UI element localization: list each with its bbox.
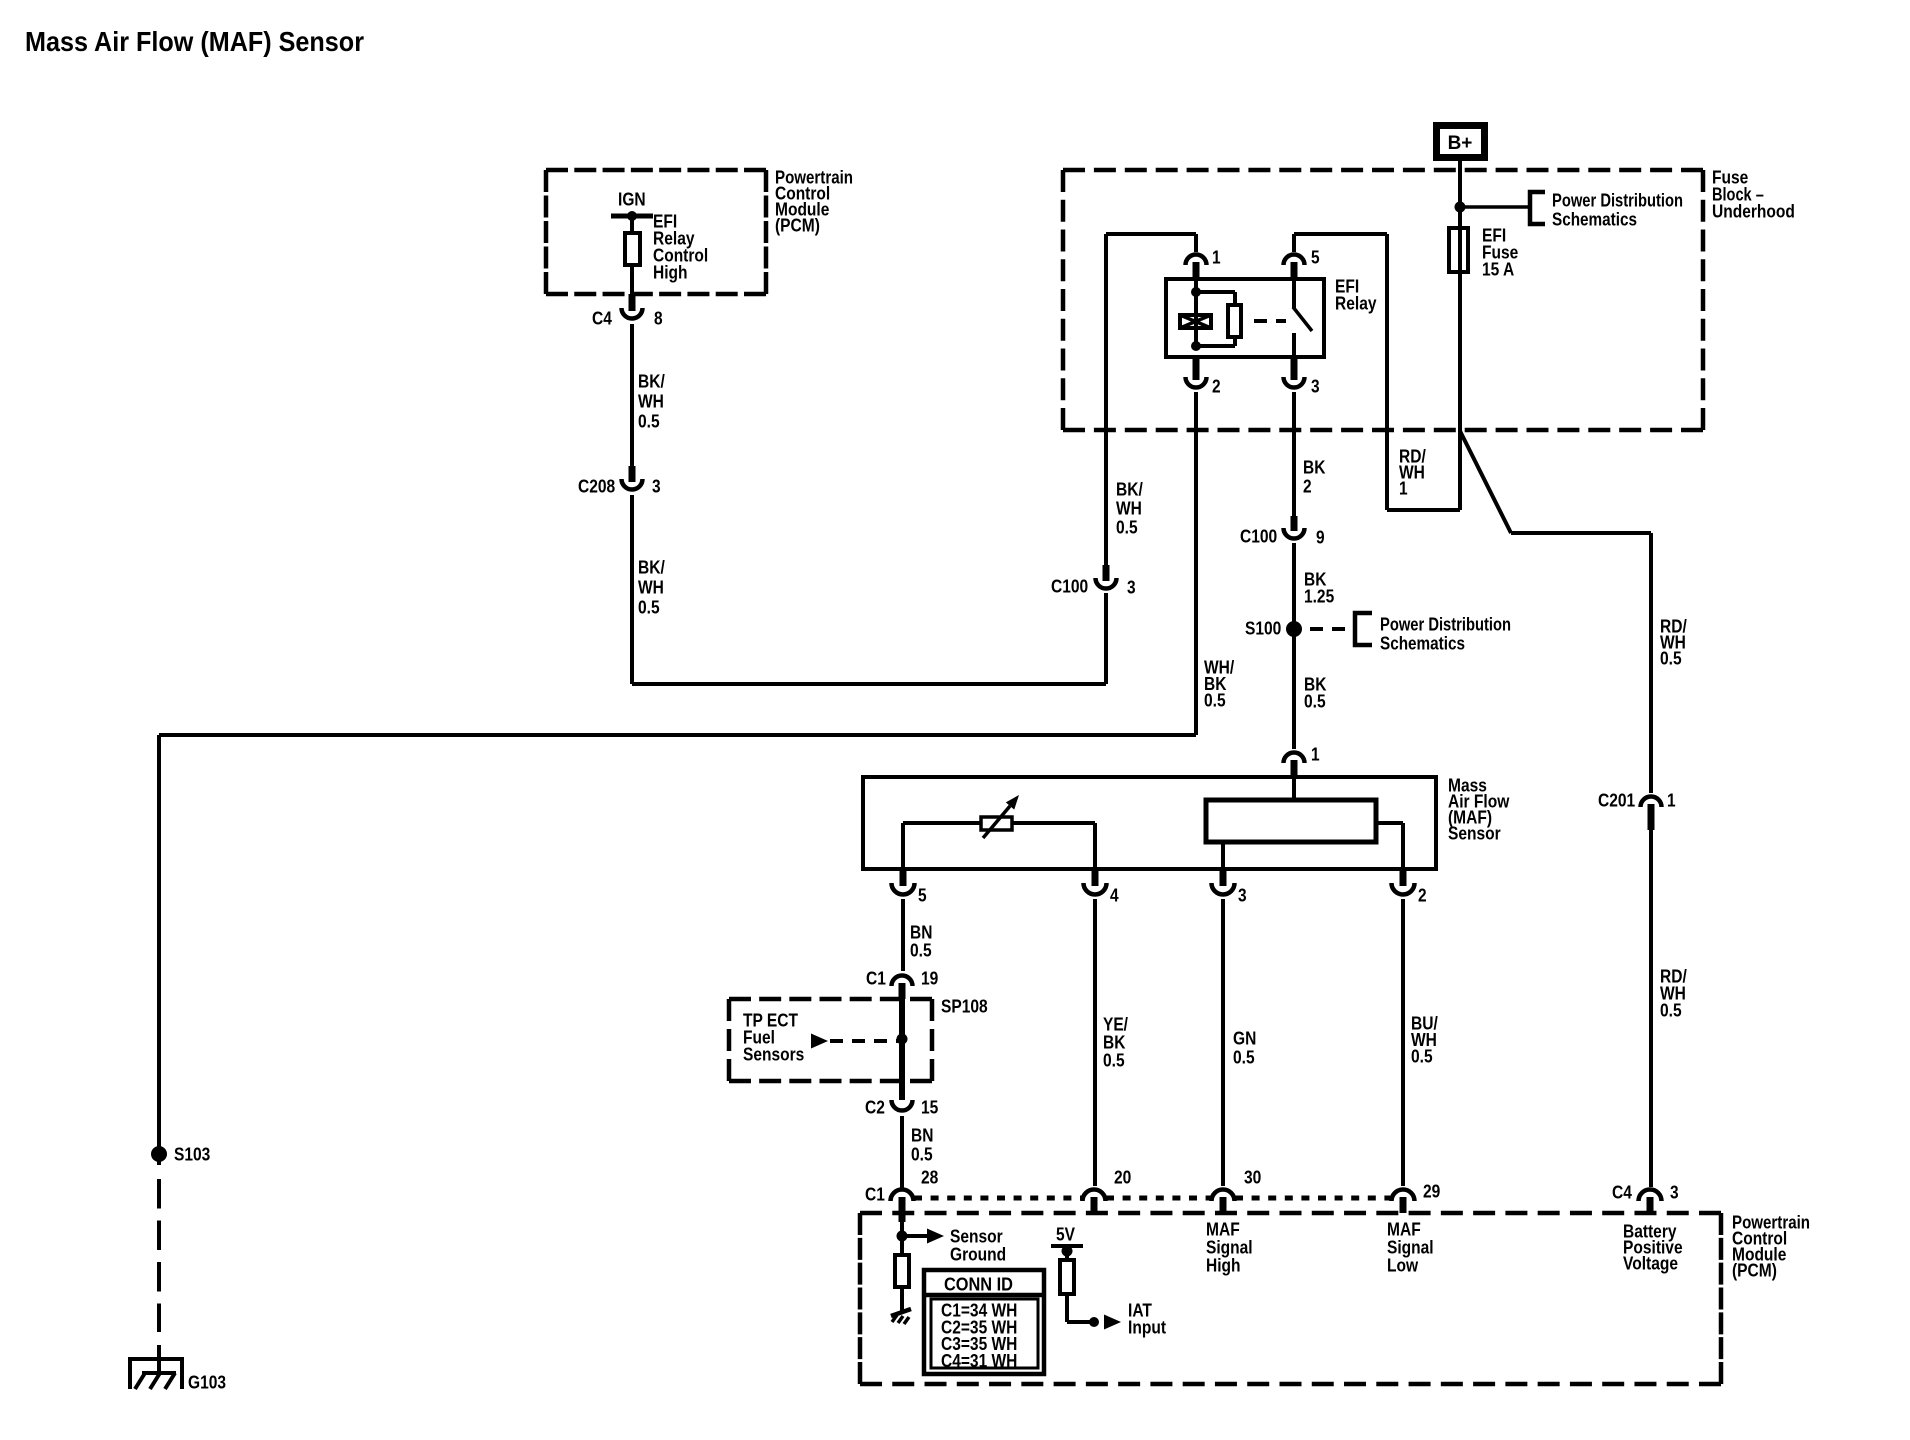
svg-text:C4=31 WH: C4=31 WH	[941, 1350, 1017, 1371]
svg-text:C2: C2	[865, 1097, 885, 1118]
svg-text:BN: BN	[911, 1125, 933, 1146]
svg-text:BK/: BK/	[638, 557, 665, 578]
svg-text:S100: S100	[1245, 618, 1281, 639]
svg-text:G103: G103	[188, 1372, 226, 1393]
svg-text:Input: Input	[1128, 1317, 1166, 1338]
svg-text:C1: C1	[866, 968, 886, 989]
svg-text:Ground: Ground	[950, 1244, 1006, 1265]
svg-text:1: 1	[1399, 478, 1408, 499]
svg-text:1.25: 1.25	[1304, 586, 1334, 607]
svg-text:SP108: SP108	[941, 996, 988, 1017]
svg-text:Schematics: Schematics	[1552, 209, 1637, 230]
svg-text:Power Distribution: Power Distribution	[1552, 190, 1683, 211]
svg-text:1: 1	[1667, 790, 1676, 811]
svg-text:0.5: 0.5	[1103, 1050, 1125, 1071]
svg-text:C4: C4	[1612, 1182, 1632, 1203]
svg-text:CONN ID: CONN ID	[944, 1274, 1013, 1295]
svg-text:Low: Low	[1387, 1255, 1419, 1276]
svg-text:2: 2	[1303, 476, 1312, 497]
svg-text:2: 2	[1212, 376, 1221, 397]
svg-text:0.5: 0.5	[1304, 691, 1326, 712]
svg-text:WH: WH	[638, 577, 664, 598]
svg-text:High: High	[1206, 1255, 1241, 1276]
svg-text:3: 3	[652, 476, 661, 497]
svg-text:WH: WH	[638, 391, 664, 412]
svg-text:BK: BK	[1303, 457, 1326, 478]
svg-text:3: 3	[1127, 577, 1136, 598]
svg-text:C201: C201	[1598, 790, 1635, 811]
svg-text:0.5: 0.5	[1204, 690, 1226, 711]
svg-text:4: 4	[1110, 885, 1119, 906]
svg-text:1: 1	[1311, 744, 1320, 765]
svg-text:0.5: 0.5	[1116, 517, 1138, 538]
svg-text:30: 30	[1244, 1167, 1261, 1188]
svg-text:C1: C1	[865, 1184, 885, 1205]
svg-text:WH: WH	[1116, 498, 1142, 519]
svg-text:9: 9	[1316, 527, 1325, 548]
svg-text:Mass Air Flow (MAF) Sensor: Mass Air Flow (MAF) Sensor	[25, 26, 364, 57]
svg-text:0.5: 0.5	[638, 597, 660, 618]
svg-text:1: 1	[1212, 247, 1221, 268]
svg-text:High: High	[653, 262, 688, 283]
svg-text:Voltage: Voltage	[1623, 1253, 1678, 1274]
svg-text:0.5: 0.5	[911, 1144, 933, 1165]
svg-text:5: 5	[1311, 247, 1320, 268]
svg-text:0.5: 0.5	[638, 411, 660, 432]
svg-text:15 A: 15 A	[1482, 259, 1514, 280]
svg-text:0.5: 0.5	[910, 940, 932, 961]
svg-text:IGN: IGN	[618, 189, 646, 210]
svg-text:GN: GN	[1233, 1028, 1256, 1049]
svg-text:8: 8	[654, 308, 663, 329]
svg-text:Sensor: Sensor	[1448, 823, 1501, 844]
svg-text:C100: C100	[1051, 576, 1088, 597]
svg-text:3: 3	[1670, 1182, 1679, 1203]
svg-text:2: 2	[1418, 885, 1427, 906]
svg-text:15: 15	[921, 1097, 938, 1118]
svg-text:(PCM): (PCM)	[1732, 1260, 1777, 1281]
svg-text:B+: B+	[1448, 133, 1473, 154]
svg-text:Relay: Relay	[1335, 293, 1377, 314]
svg-text:(PCM): (PCM)	[775, 215, 820, 236]
svg-text:5V: 5V	[1056, 1224, 1076, 1245]
svg-text:20: 20	[1114, 1167, 1131, 1188]
svg-text:C4: C4	[592, 308, 612, 329]
svg-text:0.5: 0.5	[1660, 648, 1682, 669]
svg-text:BK/: BK/	[1116, 479, 1143, 500]
svg-text:0.5: 0.5	[1411, 1046, 1433, 1067]
svg-text:19: 19	[921, 968, 938, 989]
svg-text:0.5: 0.5	[1660, 1000, 1682, 1021]
svg-text:Schematics: Schematics	[1380, 633, 1465, 654]
svg-text:3: 3	[1238, 885, 1247, 906]
svg-text:3: 3	[1311, 376, 1320, 397]
svg-text:29: 29	[1423, 1181, 1440, 1202]
svg-text:0.5: 0.5	[1233, 1047, 1255, 1068]
svg-text:C100: C100	[1240, 526, 1277, 547]
svg-text:S103: S103	[174, 1144, 210, 1165]
svg-text:C208: C208	[578, 476, 615, 497]
svg-text:Power Distribution: Power Distribution	[1380, 614, 1511, 635]
svg-text:28: 28	[921, 1167, 938, 1188]
svg-text:BK/: BK/	[638, 371, 665, 392]
svg-text:Underhood: Underhood	[1712, 201, 1795, 222]
svg-text:Sensors: Sensors	[743, 1044, 804, 1065]
svg-text:5: 5	[918, 885, 927, 906]
